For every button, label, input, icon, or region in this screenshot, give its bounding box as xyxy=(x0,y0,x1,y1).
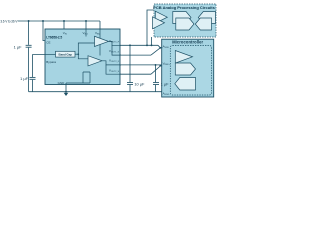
wire cap1 upper drop xyxy=(28,21,30,45)
svg-text:CE: CE xyxy=(46,40,50,44)
wire band gap output xyxy=(75,53,78,55)
capacitor C4 1uF output xyxy=(153,83,159,85)
wire cap1 lower drop to ground rail xyxy=(28,48,30,92)
op-amp icon pair front xyxy=(153,17,165,29)
op-amp U1 LT6658 chip body xyxy=(45,29,120,85)
node junction dot bandgap out xyxy=(78,53,80,55)
wire VOUT1 force up to analog box left pin xyxy=(147,10,154,45)
svg-text:Microcontroller: Microcontroller xyxy=(172,40,203,45)
op-amp icon in MCU xyxy=(175,51,192,64)
wire VIN drop xyxy=(63,21,65,29)
svg-text:PCB Analog Processing Circuits: PCB Analog Processing Circuits xyxy=(153,5,215,10)
wire cap2 to ground rail xyxy=(32,80,34,92)
wire VIN2 internal stub xyxy=(99,29,101,56)
svg-text:Bypass: Bypass xyxy=(46,60,56,64)
block PCB analog processing circuits box xyxy=(154,4,216,37)
svg-text:1 µF: 1 µF xyxy=(161,82,169,87)
block microcontroller box xyxy=(162,39,214,97)
wire internal ground bus xyxy=(66,72,90,83)
wire bandgap to amp A2 input xyxy=(78,54,88,59)
wire CE drop xyxy=(43,21,45,41)
wire A2 output to VOUT2_F xyxy=(102,61,121,65)
wire VOUT2_F line xyxy=(120,64,162,66)
svg-text:1 µF: 1 µF xyxy=(14,44,22,49)
op-amp A1 buffer xyxy=(95,36,109,46)
wire bypass pin to band gap xyxy=(45,54,56,56)
wire AVDD feed diagonal xyxy=(158,45,162,48)
wire A2 sense branch to VOUT2_S xyxy=(106,65,121,74)
wire VOUT2 sense diagonal tie xyxy=(151,66,162,74)
node junction dot VOUT1 sense tie xyxy=(159,47,161,49)
capacitor C1 1uF input xyxy=(26,45,32,47)
wire VIN1 internal stub xyxy=(85,29,87,37)
node junction dot VOUT2 tie xyxy=(155,64,157,66)
wire VOUT1 feed up to analog box bottom xyxy=(151,37,153,45)
wire ground rail xyxy=(29,91,162,93)
block microcontroller analog section dashed xyxy=(170,45,211,95)
ADC icon front xyxy=(195,18,211,30)
node junction dot VOUT1 cap tap xyxy=(129,44,131,46)
op-amp icon pair back xyxy=(155,11,167,23)
wire 1uF cap to ground rail xyxy=(155,85,157,92)
wire VIN1 drop xyxy=(85,21,87,29)
wire VOUT1 sense diagonal tie xyxy=(151,48,160,55)
wire top supply rail xyxy=(18,20,100,22)
wire VOUT2_S line xyxy=(120,73,151,75)
DAC icon in MCU xyxy=(175,63,195,75)
node junction dot rail-VIN1 xyxy=(85,20,87,22)
wire VIN2 drop at rail end xyxy=(99,21,101,29)
node junction dot rail-cap1 xyxy=(28,20,30,22)
ground symbol xyxy=(64,93,69,96)
op-amp A2 buffer xyxy=(88,56,102,66)
svg-text:LT6658-2.5: LT6658-2.5 xyxy=(46,36,62,40)
capacitor C3 10uF xyxy=(127,83,133,85)
wire A1 sense branch to VOUT1_S xyxy=(112,45,121,55)
wire GND pin drop xyxy=(65,83,67,92)
wire bypass pin to cap2 xyxy=(33,55,46,77)
wire VOUT1_S line xyxy=(120,54,151,56)
capacitor C2 1uF bypass xyxy=(30,77,36,79)
svg-text:10 µF: 10 µF xyxy=(134,82,145,87)
node junction dot ground xyxy=(65,91,67,93)
svg-text:3.6 V to 36 V: 3.6 V to 36 V xyxy=(0,20,18,24)
wire VOUT1_F line xyxy=(120,44,158,46)
wire 10uF cap drop xyxy=(129,45,131,82)
block band gap reference xyxy=(56,51,76,57)
svg-text:Band Gap: Band Gap xyxy=(59,53,73,57)
wire bandgap to amp A1 input xyxy=(78,43,94,54)
wire 10uF cap to ground rail xyxy=(129,85,131,92)
DAC icon back xyxy=(173,12,191,24)
node junction dot VOUT1 force feed xyxy=(146,44,148,46)
ADC icon back xyxy=(198,12,215,24)
DAC icon front xyxy=(176,18,194,30)
svg-text:1 µF: 1 µF xyxy=(20,76,28,81)
ADC icon in MCU xyxy=(175,78,196,91)
wire 1uF cap drop xyxy=(155,65,157,82)
node junction dot rail-VIN xyxy=(63,20,65,22)
node junction dot rail-CE xyxy=(42,20,44,22)
svg-text:GND: GND xyxy=(58,81,66,85)
wire A1 output to VOUT1_F xyxy=(109,41,122,45)
